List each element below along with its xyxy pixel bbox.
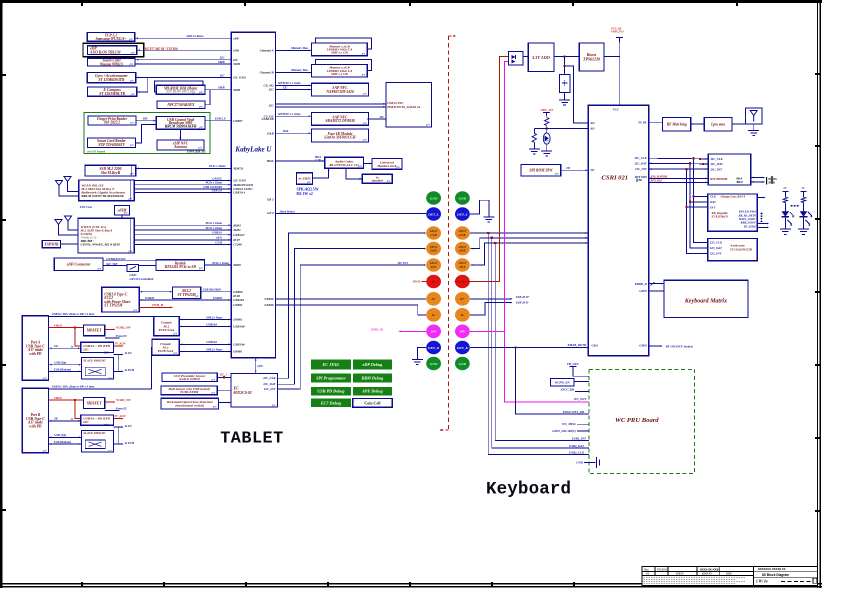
wire TX RX [649, 122, 663, 124]
Port B DC wire [49, 420, 81, 422]
wire crosspoint I2C [369, 118, 387, 120]
svg-text:VBUS: VBUS [54, 323, 62, 327]
svg-text:PCIE/SAA: PCIE/SAA [158, 349, 174, 353]
wire SPI/SMB to CPU [205, 89, 231, 91]
svg-text:USB2_CLK: USB2_CLK [569, 450, 585, 454]
svg-text:DPL2x 4lane: DPL2x 4lane [205, 315, 223, 319]
wire dock detect [275, 213, 426, 215]
wire hub USB to CPU [205, 120, 231, 122]
SSD box [85, 165, 136, 176]
svg-text:EC JTAG: EC JTAG [321, 362, 339, 367]
svg-text:p/n: p/n [362, 93, 367, 96]
svg-text:MOSFET: MOSFET [86, 401, 103, 405]
uSIM box [115, 206, 130, 216]
wire BCL2 to CPU [201, 291, 232, 293]
svg-text:SKH x.x GB: SKH x.x GB [331, 51, 348, 55]
svg-text:KabyLake U: KabyLake U [234, 146, 272, 154]
svg-text:USB2#: USB2# [264, 303, 274, 307]
svg-text:on I/O board: on I/O board [87, 149, 105, 153]
memory module A [315, 38, 371, 49]
svg-text:TX RX: TX RX [638, 121, 648, 125]
svg-text:USB3A#: USB3A# [233, 342, 245, 346]
pogo pin node D- R [455, 308, 470, 322]
svg-text:I2C: I2C [103, 423, 109, 427]
svg-text:8X8XX: 8X8XX [676, 573, 684, 576]
Port A to PCH wire [114, 370, 123, 372]
svg-text:p/n: p/n [42, 450, 47, 453]
svg-text:I2C_INT: I2C_INT [634, 167, 647, 171]
svg-text:BT_LED8: BT_LED8 [743, 225, 756, 228]
wire SD PCIe to CPU [205, 264, 232, 266]
svg-text:DET_L: DET_L [427, 212, 439, 216]
svg-text:GPIO: GPIO [639, 289, 647, 293]
resistor R2 branch [534, 127, 546, 129]
wire touch I2C [135, 59, 231, 61]
svg-text:p/n: p/n [129, 80, 134, 83]
svg-text:19V5A: 19V5A [412, 280, 420, 284]
svg-text:3W: 3W [565, 166, 571, 170]
bus dots [761, 213, 763, 223]
uSD connector box [54, 258, 103, 271]
svg-text:5V_ALW: 5V_ALW [115, 414, 127, 418]
keyboard controller U CSRI 021 [588, 105, 649, 356]
wire SPI to CSRI [561, 169, 589, 171]
svg-text:I2C_DAT: I2C_DAT [634, 161, 647, 165]
svg-text:CONN_B2B_X02: CONN_B2B_X02 [187, 150, 206, 153]
charger LED arrows [757, 223, 768, 225]
wire codec to speaker [346, 168, 362, 179]
ground antenna [753, 124, 755, 130]
BT to connector wires [751, 177, 765, 179]
pogo pin node I2C3 CLK R [455, 226, 470, 240]
svg-text:Rk U5353S ALC CU: Rk U5353S ALC CU [329, 163, 359, 167]
Port B From EC wire [105, 410, 120, 412]
wire I2C3 INT to CSRI [470, 243, 588, 265]
svg-text:D+: D+ [459, 297, 465, 301]
svg-text:DAB: DAB [266, 131, 273, 135]
pogo pin node I2C3 CLK L [426, 226, 441, 240]
wire face IR [275, 132, 311, 134]
Port A MOSFET out wire red [105, 328, 115, 330]
e-compass box [88, 87, 137, 96]
svg-text:M2#1: M2#1 [232, 228, 241, 232]
dots between LEDs [791, 205, 799, 207]
svg-text:in PCH: in PCH [125, 441, 135, 445]
svg-text:BT8 M3058M: BT8 M3058M [709, 177, 728, 181]
svg-text:ST LIS2DW12TR: ST LIS2DW12TR [730, 247, 752, 251]
svg-text:8X8X: 8X8X [726, 573, 732, 576]
svg-text:NXP8371DV1420: NXP8371DV1420 [325, 90, 354, 94]
speaker box [362, 174, 392, 183]
svg-text:p/n: p/n [212, 406, 217, 409]
svg-text:I2C: I2C [282, 85, 288, 89]
BT module box [708, 154, 751, 185]
Port A 5V_ALW wire red [75, 328, 81, 347]
svg-text:KBB_LEDW: KBB_LEDW [740, 222, 756, 225]
pogo pin node I2C3 DAT L [426, 242, 441, 256]
svg-text:p/n: p/n [129, 122, 134, 125]
svg-text:SPI: SPI [143, 116, 149, 120]
svg-text:p/n: p/n [128, 38, 133, 41]
svg-text:USB2.9B: USB2.9B [261, 117, 273, 121]
pogo pin node I2C3 INT L [426, 258, 441, 272]
svg-text:BT8 M30: BT8 M30 [634, 175, 647, 179]
wire ECL2 to BCL2 [139, 291, 172, 293]
wire USB2 D- left [275, 305, 426, 315]
svg-text:USB (Bottom): USB (Bottom) [54, 440, 71, 444]
svg-text:EC? Debug: EC? Debug [320, 400, 341, 405]
svg-text:ST TPS25M: ST TPS25M [177, 293, 196, 297]
PD controller BCL2 box [173, 287, 201, 299]
svg-text:RTS5261 PCIe to SD: RTS5261 PCIe to SD [165, 265, 197, 269]
Port A DC wire [49, 347, 81, 349]
svg-text:I2C_CLK: I2C_CLK [262, 376, 276, 380]
svg-text:PCIe x 2lane: PCIe x 2lane [209, 164, 226, 168]
svg-text:Channel B: Channel B [260, 71, 274, 75]
svg-text:DPL2x 4lane: DPL2x 4lane [205, 347, 223, 351]
debug box USB PD Debug [311, 387, 351, 396]
ground LED [541, 150, 552, 152]
wire 5V pogo red stub [422, 281, 427, 283]
svg-text:INT: INT [458, 265, 466, 269]
svg-text:I2C: I2C [219, 74, 226, 78]
wire POGO_DET drop [516, 348, 589, 414]
svg-text:WCPW_EN: WCPW_EN [555, 380, 571, 384]
wires SAP NFC 1 [275, 84, 311, 86]
svg-text:DET_K: DET_K [427, 346, 440, 350]
svg-text:USB#7: USB#7 [233, 119, 243, 123]
svg-text:I2C INT: I2C INT [397, 261, 409, 265]
wire hall to EC [217, 389, 231, 391]
LED D2 indicator [543, 133, 550, 144]
svg-text:Channel A: Channel A [260, 49, 274, 53]
svg-text:I2C_DAT: I2C_DAT [710, 162, 723, 166]
Port B MOSFET Q [83, 398, 104, 409]
pogo pin node GND L [426, 357, 441, 371]
svg-text:GPIO_DSC18#(C): GPIO_DSC18#(C) [552, 429, 576, 433]
svg-text:USB3A 4: USB3A 4 [233, 191, 245, 195]
resistor R1 [546, 116, 548, 118]
svg-text:MOSFET: MOSFET [86, 329, 103, 333]
svg-text:USB (Up): USB (Up) [54, 361, 66, 365]
svg-text:USB 2.0: USB 2.0 [211, 189, 222, 193]
svg-text:p/n: p/n [271, 404, 276, 407]
svg-text:KB LED_PWd: KB LED_PWd [738, 211, 756, 214]
gyro accelerometer box [87, 73, 136, 83]
wires CSRI to BT I2C [649, 157, 708, 160]
wire USB2_INT drop [495, 243, 589, 440]
svg-text:BB:8: BB:8 [737, 180, 744, 184]
wire VCC to CSRI [619, 38, 621, 106]
svg-text:PCIe x 1lane: PCIe x 1lane [212, 261, 229, 265]
memory module B [315, 59, 371, 70]
svg-text:I2C_CLK: I2C_CLK [634, 156, 648, 160]
svg-text:USB 2# D+: USB 2# D+ [516, 295, 530, 299]
ground WC board [597, 457, 600, 468]
pogo pin node GND R [455, 357, 470, 371]
wire codec to jack [364, 163, 372, 165]
svg-text:USB3A / DPx 2lane or DP x 4 la: USB3A / DPx 2lane or DP x 4 lane [52, 385, 95, 389]
svg-text:I2C: I2C [379, 115, 385, 119]
svg-text:Charge Low_BAT 8: Charge Low_BAT 8 [721, 195, 746, 199]
svg-text:KB_BL_DET8: KB_BL_DET8 [738, 214, 756, 217]
NFC antenna box [157, 140, 204, 150]
svg-text:Keyboard Matrix: Keyboard Matrix [684, 299, 727, 305]
svg-text:BRCM 58200A1KFB: BRCM 58200A1KFB [164, 125, 197, 129]
svg-text:with PD: with PD [29, 352, 41, 356]
svg-text:BA8: BA8 [282, 129, 289, 133]
svg-text:USB (Up): USB (Up) [54, 433, 66, 437]
svg-text:GB 3: GB 3 [267, 197, 274, 201]
svg-text:SPI ROM 4M Cnfg: SPI ROM 4M Cnfg [166, 90, 195, 94]
svg-text:I2C_1: I2C_1 [219, 373, 228, 377]
pogo pin node 5V L [426, 275, 441, 289]
keyboard matrix box [664, 280, 748, 317]
svg-text:C12#8: C12#8 [233, 243, 242, 247]
svg-text:M2#3: M2#3 [232, 223, 241, 227]
svg-text:APE Debug: APE Debug [361, 389, 383, 394]
RF matching box [663, 117, 691, 131]
svg-text:8XXX-8X-XX8X: 8XXX-8X-XX8X [700, 568, 720, 572]
debug box KBM Debug [353, 374, 392, 383]
svg-text:GND: GND [459, 362, 467, 366]
svg-text:DET_L: DET_L [456, 212, 468, 216]
USB PD crosspoint box U [386, 83, 432, 128]
mic box [296, 173, 312, 184]
svg-text:GP OS Controlled: GP OS Controlled [130, 277, 154, 281]
wire eDP [135, 37, 232, 39]
svg-text:ST LSM6DS3TR: ST LSM6DS3TR [98, 78, 125, 82]
svg-text:USB PD Debug: USB PD Debug [317, 389, 344, 394]
debug box SPI Programmer [311, 374, 351, 383]
wire WC_MISC [577, 423, 589, 425]
svg-text:MAIN_CLKW: MAIN_CLKW [738, 218, 756, 221]
svg-text:BT ON/OFF Switch: BT ON/OFF Switch [665, 344, 693, 348]
highlight rectangle [83, 43, 144, 56]
svg-text:TC3K EEPR: TC3K EEPR [180, 390, 199, 394]
svg-text:GPIO_IN: GPIO_IN [371, 327, 384, 331]
svg-text:CSRI 021: CSRI 021 [602, 174, 629, 181]
svg-text:PCIe x 1lane: PCIe x 1lane [205, 221, 222, 225]
title block [642, 567, 817, 586]
svg-text:Memory Bus: Memory Bus [290, 46, 309, 50]
svg-text:p/n: p/n [97, 267, 102, 270]
touch controller box [88, 58, 136, 66]
svg-text:3.3V LDO: 3.3V LDO [531, 55, 550, 60]
svg-text:M2#7,8: M2#7,8 [232, 166, 243, 170]
proximity sensor box [162, 373, 217, 382]
svg-text:p/n: p/n [129, 144, 134, 147]
SD reader box [156, 260, 204, 271]
svg-text:INT: INT [709, 205, 715, 209]
svg-text:USB3A7: USB3A7 [233, 233, 245, 237]
svg-text:RF Matching: RF Matching [667, 123, 687, 127]
input protection box D1 [509, 51, 524, 65]
wire EC I2C DAT to pogo [277, 249, 425, 385]
svg-text:I2C_CLK: I2C_CLK [710, 157, 724, 161]
svg-text:3W: 3W [589, 168, 595, 172]
wire 19V magenta riser [470, 61, 509, 331]
svg-text:VB_OUT: VB_OUT [567, 362, 579, 366]
ground DET_K left [412, 359, 423, 361]
SAP NFC box 1 [312, 83, 369, 96]
EC controller box [231, 373, 277, 407]
LPC wire CPU-EC [255, 358, 257, 374]
svg-text:19VB_M: 19VB_M [152, 303, 164, 307]
wire smart card to hub [136, 125, 157, 143]
svg-text:DAT: DAT [709, 200, 716, 204]
Port B redriver box [82, 430, 114, 452]
svg-text:I2C_INT: I2C_INT [263, 387, 276, 391]
Port B USB bottom wire [49, 443, 82, 445]
resistor LED [803, 194, 805, 197]
ground LED group [784, 217, 786, 229]
svg-text:DET_K: DET_K [456, 346, 469, 350]
svg-text:CLK: CLK [459, 233, 466, 237]
svg-text:ST TPS25M: ST TPS25M [104, 304, 123, 308]
WC PRU board outline [589, 369, 695, 473]
svg-text:eDP Debug: eDP Debug [363, 362, 383, 367]
WLAN antenna pair [56, 181, 63, 192]
Port A redriver box [82, 358, 114, 380]
svg-text:PCIe x 1lane: PCIe x 1lane [205, 226, 222, 230]
svg-text:USB2_INT: USB2_INT [572, 436, 586, 440]
svg-text:Switch X290/0: Switch X290/0 [179, 377, 200, 381]
svg-text:GB 0: GB 0 [592, 343, 599, 347]
svg-text:SRAM272 DV8838: SRAM272 DV8838 [325, 119, 354, 123]
svg-text:8Ω 1W x2: 8Ω 1W x2 [297, 192, 313, 196]
svg-text:p/n: p/n [211, 378, 216, 381]
Port B I2C to EC wire [114, 427, 119, 444]
BT on/off switch wire [649, 345, 662, 347]
svg-text:19V: 19V [431, 330, 438, 334]
svg-text:DDI: DDI [232, 48, 240, 52]
svg-text:Wacom W9013: Wacom W9013 [100, 62, 123, 66]
svg-text:USB#1: USB#1 [233, 303, 243, 307]
IO board group outline [84, 112, 210, 153]
svg-text:80X2C0 03: 80X2C0 03 [234, 390, 252, 395]
headset jack box [372, 159, 402, 170]
LTE antenna pair [55, 220, 62, 231]
svg-text:M2#9: M2#9 [232, 263, 241, 267]
audio codec box [325, 157, 364, 168]
antenna tuner box [704, 117, 732, 131]
svg-text:eDP x2 lanes: eDP x2 lanes [187, 34, 205, 38]
wire to CSRI AD2 [547, 127, 589, 129]
svg-text:I2C_INT: I2C_INT [710, 168, 723, 172]
LTE WWAN module box [78, 218, 134, 253]
Port A USB up wire [49, 364, 82, 366]
pogo pin node 19V L [426, 325, 441, 339]
wire tuner to antenna [732, 123, 746, 125]
svg-text:Size: Size [644, 568, 649, 571]
Port A PD controller box [81, 342, 114, 352]
svg-text:WC PRU Board: WC PRU Board [615, 417, 659, 424]
svg-text:MFPCIE 2 x 1lane: MFPCIE 2 x 1lane [277, 81, 301, 85]
Port B MOSFET out wire red [105, 401, 115, 403]
svg-text:DDI#3: DDI#3 [232, 350, 242, 354]
svg-text:p/n: p/n [211, 391, 216, 394]
face IR camera box [312, 129, 369, 142]
coin cell box [353, 399, 392, 408]
tablet/keyboard divider dashed line [447, 36, 449, 430]
pogo pin node 5V R [455, 275, 470, 289]
svg-text:EMAB_DETB: EMAB_DETB [566, 343, 586, 347]
debug box EC? Debug [311, 399, 351, 408]
svg-text:p/n: p/n [108, 449, 113, 452]
svg-text:I8 #7: I8 #7 [232, 238, 240, 242]
svg-text:VBW_3V3: VBW_3V3 [611, 30, 624, 34]
svg-text:LPC: LPC [256, 364, 264, 368]
svg-text:TPS61230: TPS61230 [583, 56, 600, 61]
wire LDO to boost [554, 56, 579, 58]
svg-text:LTE Con: LTE Con [79, 205, 92, 209]
svg-text:Memory Bus: Memory Bus [290, 68, 309, 72]
svg-text:AD: AD [589, 121, 595, 125]
svg-text:SKH x.x GB: SKH x.x GB [331, 72, 348, 76]
Port A MOSFET Q [83, 325, 104, 336]
Port B to PCH wire [114, 443, 123, 445]
SPI ROM box [155, 81, 204, 92]
ESP IOB box [42, 240, 60, 247]
wires SAP NFC 2 [275, 115, 311, 117]
svg-text:CLK: CLK [710, 195, 717, 199]
svg-text:USB1&USB2#: USB1&USB2# [203, 288, 222, 292]
wire mic to codec [313, 168, 329, 178]
wire GND WC board [584, 461, 596, 463]
svg-text:(mechanical switch): (mechanical switch) [175, 404, 204, 408]
wire USB2 D+ right [470, 298, 512, 300]
svg-text:p/n: p/n [173, 352, 178, 355]
Port A USB bottom wire [49, 370, 82, 372]
svg-text:p/n: p/n [361, 53, 366, 56]
svg-text:KBM Debug: KBM Debug [361, 376, 384, 381]
pogo pin node DET_K L [426, 341, 441, 355]
svg-text:ST LIS2MDLTR: ST LIS2MDLTR [99, 92, 125, 96]
svg-text:BT8_M3058M: BT8_M3058M [650, 175, 668, 178]
svg-text:D-: D- [460, 313, 466, 317]
svg-text:SMB: SMB [218, 60, 224, 64]
wire WCPW_EN [574, 381, 589, 383]
svg-text:AUO B.OS TBL13#: AUO B.OS TBL13# [89, 50, 120, 54]
wire USB2 D+ left [275, 298, 426, 300]
svg-text:I2C: I2C [103, 350, 109, 354]
Port A VBUS wire red [49, 327, 84, 329]
svg-text:WC_MISC: WC_MISC [562, 422, 577, 426]
svg-text:USB2_DAT: USB2_DAT [569, 444, 584, 448]
capacitor C1 [564, 57, 566, 75]
svg-text:USB3.0: USB3.0 [212, 231, 222, 235]
svg-text:I2C_DAT: I2C_DAT [709, 246, 722, 250]
svg-text:Dock Detect: Dock Detect [279, 209, 296, 213]
svg-text:p/n: p/n [386, 180, 391, 183]
svg-text:SMB: SMB [233, 62, 240, 66]
svg-text:Headset Jack: Headset Jack [376, 164, 396, 168]
wire 19V GPIO_IN magenta [400, 330, 426, 332]
wire hub to NFC [179, 129, 181, 140]
svg-text:USB 2.0: USB 2.0 [215, 116, 226, 120]
svg-text:19V: 19V [459, 330, 466, 334]
svg-text:KBM8_D: KBM8_D [634, 282, 648, 286]
svg-text:Coin Cell: Coin Cell [364, 400, 381, 405]
svg-text:USB3A / DPx 2lane or DP x 4 la: USB3A / DPx 2lane or DP x 4 lane [52, 312, 95, 316]
female M.2 connector 1 [154, 316, 180, 335]
wire memory bus B [275, 72, 311, 74]
svg-text:GND: GND [430, 362, 438, 366]
pogo pin node DET_K R [455, 341, 470, 355]
pogo pin node DET_L L [426, 207, 441, 221]
wire gyro/compass I2C [137, 78, 148, 93]
